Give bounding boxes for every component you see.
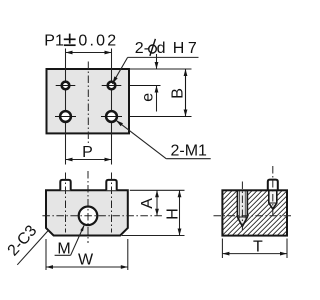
side view tapped hole centerline [241, 182, 243, 231]
plus-minus symbol [64, 34, 76, 46]
front view pin stud right [106, 180, 116, 190]
dimension T extension left [221, 239, 223, 259]
tapped hole bottom-left [55, 111, 76, 122]
svg-text:M: M [57, 240, 70, 257]
front view center hole M fill [79, 207, 98, 226]
svg-text:P: P [82, 144, 93, 161]
dimension T line [222, 253, 287, 255]
svg-text:H7: H7 [173, 40, 200, 57]
extension line front bottom edge (H) [122, 235, 185, 237]
dimension P1 line [66, 52, 112, 54]
dimension P line [66, 159, 112, 161]
label 2-C3 leader [17, 230, 49, 265]
side view tapped hole thread lines [239, 190, 241, 218]
extension line top hole row (for e) [129, 85, 161, 87]
label M leader [55, 254, 71, 256]
front view centerline right pin [111, 173, 113, 233]
svg-text:2-: 2- [135, 40, 149, 57]
front view horizontal centerline / A extension [42, 215, 162, 217]
side view horizontal centerline [214, 215, 294, 217]
dimension T extension right [286, 239, 288, 259]
top view plate body [47, 69, 130, 133]
side view body outline [222, 190, 287, 235]
dimension W extension right [127, 239, 129, 270]
dimension A line [156, 190, 158, 216]
svg-text:2-M1: 2-M1 [171, 142, 208, 159]
svg-text:H: H [164, 208, 181, 220]
phi symbol [149, 45, 157, 53]
tapped hole bottom-right [101, 111, 122, 122]
dimension H line [179, 190, 181, 235]
front view vertical centerline [87, 171, 89, 243]
svg-text:W: W [78, 252, 94, 269]
top view vertical centerline [87, 62, 89, 146]
front view centerline left pin [65, 173, 67, 233]
extension line front top edge (A/H) [130, 189, 185, 191]
svg-text:d: d [157, 40, 166, 57]
extension line left hole column (P1/P) [65, 49, 67, 165]
svg-text:P1: P1 [44, 33, 64, 50]
svg-text:B: B [170, 88, 187, 99]
dowel hole top-right [102, 82, 122, 90]
front view body [46, 190, 128, 235]
side view pin stud [268, 180, 278, 191]
extension line bottom hole row (for B) [129, 116, 192, 118]
side view pin hole channel [269, 190, 277, 209]
front view center hole M ring [79, 207, 98, 226]
svg-text:A: A [139, 198, 156, 209]
dimension W extension left [45, 239, 47, 270]
section hatching [177, 190, 320, 235]
label 2-M1 leader [116, 120, 166, 159]
svg-text:e: e [140, 93, 157, 102]
svg-text:2-C3: 2-C3 [5, 222, 41, 259]
extension line top edge (for e/B) [129, 68, 192, 70]
label 2-phi-d H7 leader [112, 57, 127, 83]
dimension W line [46, 266, 128, 268]
front view pin stud left [60, 180, 70, 190]
side view tapped hole channel [237, 190, 247, 226]
side view body (section) [222, 190, 287, 235]
extension line right hole column (P1/P) [111, 49, 113, 165]
dowel hole top-left [56, 82, 76, 90]
dimension e line [156, 54, 158, 69]
svg-text:0.02: 0.02 [78, 33, 118, 50]
side view pin centerline [272, 166, 274, 216]
dimension B line [185, 69, 187, 117]
svg-text:T: T [253, 239, 263, 256]
